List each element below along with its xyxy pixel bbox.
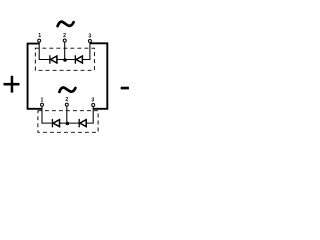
svg-text:2: 2 bbox=[63, 33, 66, 39]
wire: bottom rail right and up to terminal 3 bbox=[86, 106, 93, 123]
svg-text:1: 1 bbox=[38, 33, 41, 39]
diode D2 (top module right, cathode bar left) bbox=[75, 55, 83, 63]
wire: bottom rail between D3 and D4 bbox=[60, 122, 79, 124]
wire: right DC bus (-) joining terminal 3 of both modules bbox=[90, 43, 107, 109]
AC symbol ~ (middle, above terminal 2 of bottom module) bbox=[59, 87, 75, 91]
wire: top terminal 2 down to rail junction bbox=[64, 42, 66, 60]
wire: left DC bus (+) joining terminal 1 of both modules bbox=[28, 44, 42, 109]
svg-text:2: 2 bbox=[65, 97, 68, 103]
svg-text:1: 1 bbox=[40, 97, 43, 103]
terminal circle 1 (top module) bbox=[38, 39, 41, 42]
diode D1 (top module left, cathode bar left) bbox=[49, 55, 57, 63]
minus terminal label bbox=[121, 87, 129, 90]
module outline bottom (dashed box) bbox=[38, 111, 98, 133]
wire: bottom terminal 1 down to rail bbox=[42, 106, 52, 123]
module outline top (dashed box) bbox=[35, 48, 94, 70]
diode D4 (bottom module right, cathode bar left) bbox=[79, 119, 87, 127]
wire: top rail between D1 and D2 bbox=[57, 59, 75, 61]
junction dot (top module, terminal 2 to rail) bbox=[63, 58, 67, 62]
junction dot (bottom module, terminal 2 to rail) bbox=[66, 122, 70, 126]
diode D3 (bottom module left, cathode bar left) bbox=[52, 119, 60, 127]
svg-text:3: 3 bbox=[91, 97, 94, 103]
terminal circle 2 (top module) bbox=[63, 39, 66, 42]
plus terminal label bbox=[4, 76, 20, 93]
terminal circle 1 (bottom module) bbox=[41, 103, 44, 106]
AC symbol ~ (top, above terminal 2 of top module) bbox=[58, 22, 74, 26]
terminal circle 2 (bottom module) bbox=[65, 103, 68, 106]
terminal circle 3 (top module) bbox=[88, 40, 91, 43]
wire: bottom terminal 2 down to rail junction bbox=[66, 106, 68, 123]
svg-text:3: 3 bbox=[88, 34, 91, 40]
terminal circle 3 (bottom module) bbox=[92, 104, 95, 107]
wire: top terminal 1 down to anode rail bbox=[39, 42, 49, 60]
wire: top rail right and up to terminal 3 bbox=[82, 42, 90, 59]
